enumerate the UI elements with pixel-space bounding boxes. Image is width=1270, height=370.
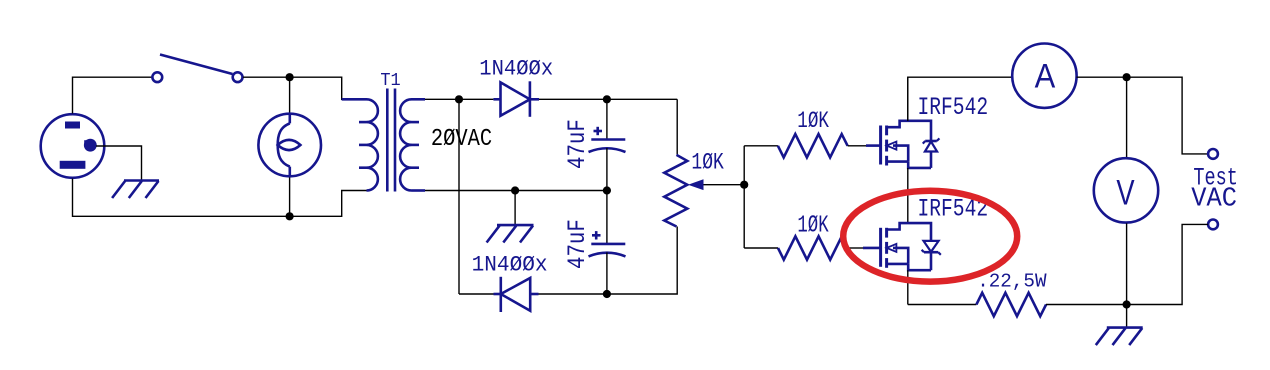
switch S1 right contact <box>233 72 243 82</box>
wire Q1 source to Q2 drain <box>907 168 909 223</box>
transistor Q1 IRF542 <box>866 121 931 168</box>
node voltmeter top junction <box>1123 73 1131 81</box>
wire switch to lamp junction <box>243 77 367 99</box>
wire wiper node vertical <box>743 146 745 248</box>
svg-text:VAC: VAC <box>1191 184 1237 214</box>
wire plug ground pin to chassis ground <box>96 146 142 180</box>
svg-text:.22,5W: .22,5W <box>977 271 1047 293</box>
wire voltmeter bottom lead <box>1126 223 1128 304</box>
transistor Q2 IRF542 <box>863 223 931 270</box>
diode Q2 body zener <box>922 241 941 270</box>
wire Q1 drain <box>907 77 909 121</box>
wire R3 to Q2 gate <box>848 247 863 249</box>
wire middle rail <box>425 190 607 192</box>
ammeter M1 <box>1012 43 1076 107</box>
wire to R3 <box>744 247 778 249</box>
switch S1 lever <box>160 55 233 75</box>
wire top rail to pot <box>676 99 678 155</box>
wire 20VAC sense vertical <box>458 99 460 294</box>
wire Q2 source down <box>907 270 909 304</box>
svg-text:47uF: 47uF <box>563 119 591 169</box>
wire wiper to node <box>704 184 745 186</box>
capacitor C1 47uF <box>589 140 626 153</box>
chassis ground G3 <box>1096 328 1143 346</box>
svg-text:1ØK: 1ØK <box>797 213 829 239</box>
wire C2 bottom lead <box>606 252 608 294</box>
node middle rail ground junction <box>511 186 519 194</box>
AC plug P1 body circle <box>41 114 105 178</box>
svg-text:V: V <box>1116 173 1134 212</box>
diode Q1 body zener <box>923 138 940 168</box>
red highlight ellipse <box>843 191 1017 282</box>
resistor R4 .22 5W <box>976 293 1046 316</box>
transformer T1 primary winding <box>342 99 378 190</box>
resistor R3 10K <box>778 236 848 259</box>
svg-text:A: A <box>1035 57 1056 95</box>
diode D1 1N400x <box>493 81 539 117</box>
svg-text:T1: T1 <box>380 71 400 92</box>
wire R2 to Q1 gate <box>848 145 866 147</box>
wire R4 to ground node <box>1046 304 1127 306</box>
wire bottom rail to pot <box>539 227 678 295</box>
wire ground stub right <box>1126 305 1128 328</box>
node C1 top junction <box>603 95 611 103</box>
transformer T1 secondary winding <box>400 99 425 190</box>
label C1 polarity + <box>594 127 603 135</box>
wire ammeter to test terminal <box>1077 77 1208 154</box>
wire lamp bottom lead <box>289 178 291 217</box>
svg-text:1ØK: 1ØK <box>691 150 724 176</box>
svg-text:1N4ØØx: 1N4ØØx <box>479 57 553 82</box>
chassis ground G2 <box>487 225 534 242</box>
node middle rail C1 junction <box>603 186 611 194</box>
node lamp bottom junction <box>286 212 294 220</box>
svg-text:1ØK: 1ØK <box>797 109 829 135</box>
lamp DS1 <box>258 113 321 178</box>
terminal test VAC bottom <box>1208 220 1218 230</box>
node bottom rail C2 junction <box>603 290 611 298</box>
wire to R2 <box>744 145 778 147</box>
wire voltmeter top lead <box>1126 77 1128 157</box>
node secondary top junction <box>455 95 463 103</box>
svg-text:2ØVAC: 2ØVAC <box>431 126 492 153</box>
wire top rail diode to cap C1 <box>539 98 677 100</box>
wire bottom return rail <box>459 293 494 295</box>
potentiometer R1 wiper arrow <box>688 179 704 190</box>
AC plug P1 ground pin <box>84 139 97 152</box>
transformer T1 core <box>387 89 395 192</box>
svg-text:47uF: 47uF <box>563 219 591 269</box>
wire bottom terminal to rail <box>1127 224 1208 304</box>
wire C2 top lead <box>606 191 608 244</box>
voltmeter M2 <box>1094 158 1158 222</box>
svg-text:1N4ØØx: 1N4ØØx <box>472 253 548 278</box>
terminal test VAC top <box>1208 149 1218 159</box>
AC plug P1 top slot <box>65 122 80 129</box>
node lamp top junction <box>286 73 294 81</box>
wire lamp top lead <box>289 77 291 113</box>
wire Q1 drain to ammeter <box>908 77 1012 121</box>
node bottom rail ground junction <box>1123 300 1131 308</box>
svg-text:IRF542: IRF542 <box>918 93 989 122</box>
switch S1 left contact <box>152 72 162 82</box>
node wiper junction <box>740 181 748 189</box>
capacitor C2 47uF <box>589 244 626 257</box>
AC plug P1 bottom slot <box>60 161 86 169</box>
wire ground stub <box>514 191 516 225</box>
wire bottom rail left <box>908 304 977 306</box>
wire C1 top lead <box>606 99 608 139</box>
potentiometer R1 10K <box>664 155 687 227</box>
wire plug bottom rail <box>73 179 367 217</box>
resistor R2 10K <box>778 134 848 157</box>
label C2 polarity + <box>592 231 601 239</box>
wire secondary top rail <box>425 98 493 100</box>
wire C1 bottom lead <box>606 148 608 191</box>
diode D2 1N400x <box>494 277 539 312</box>
wire plug top to switch <box>73 77 152 113</box>
chassis ground G1 <box>112 181 159 199</box>
